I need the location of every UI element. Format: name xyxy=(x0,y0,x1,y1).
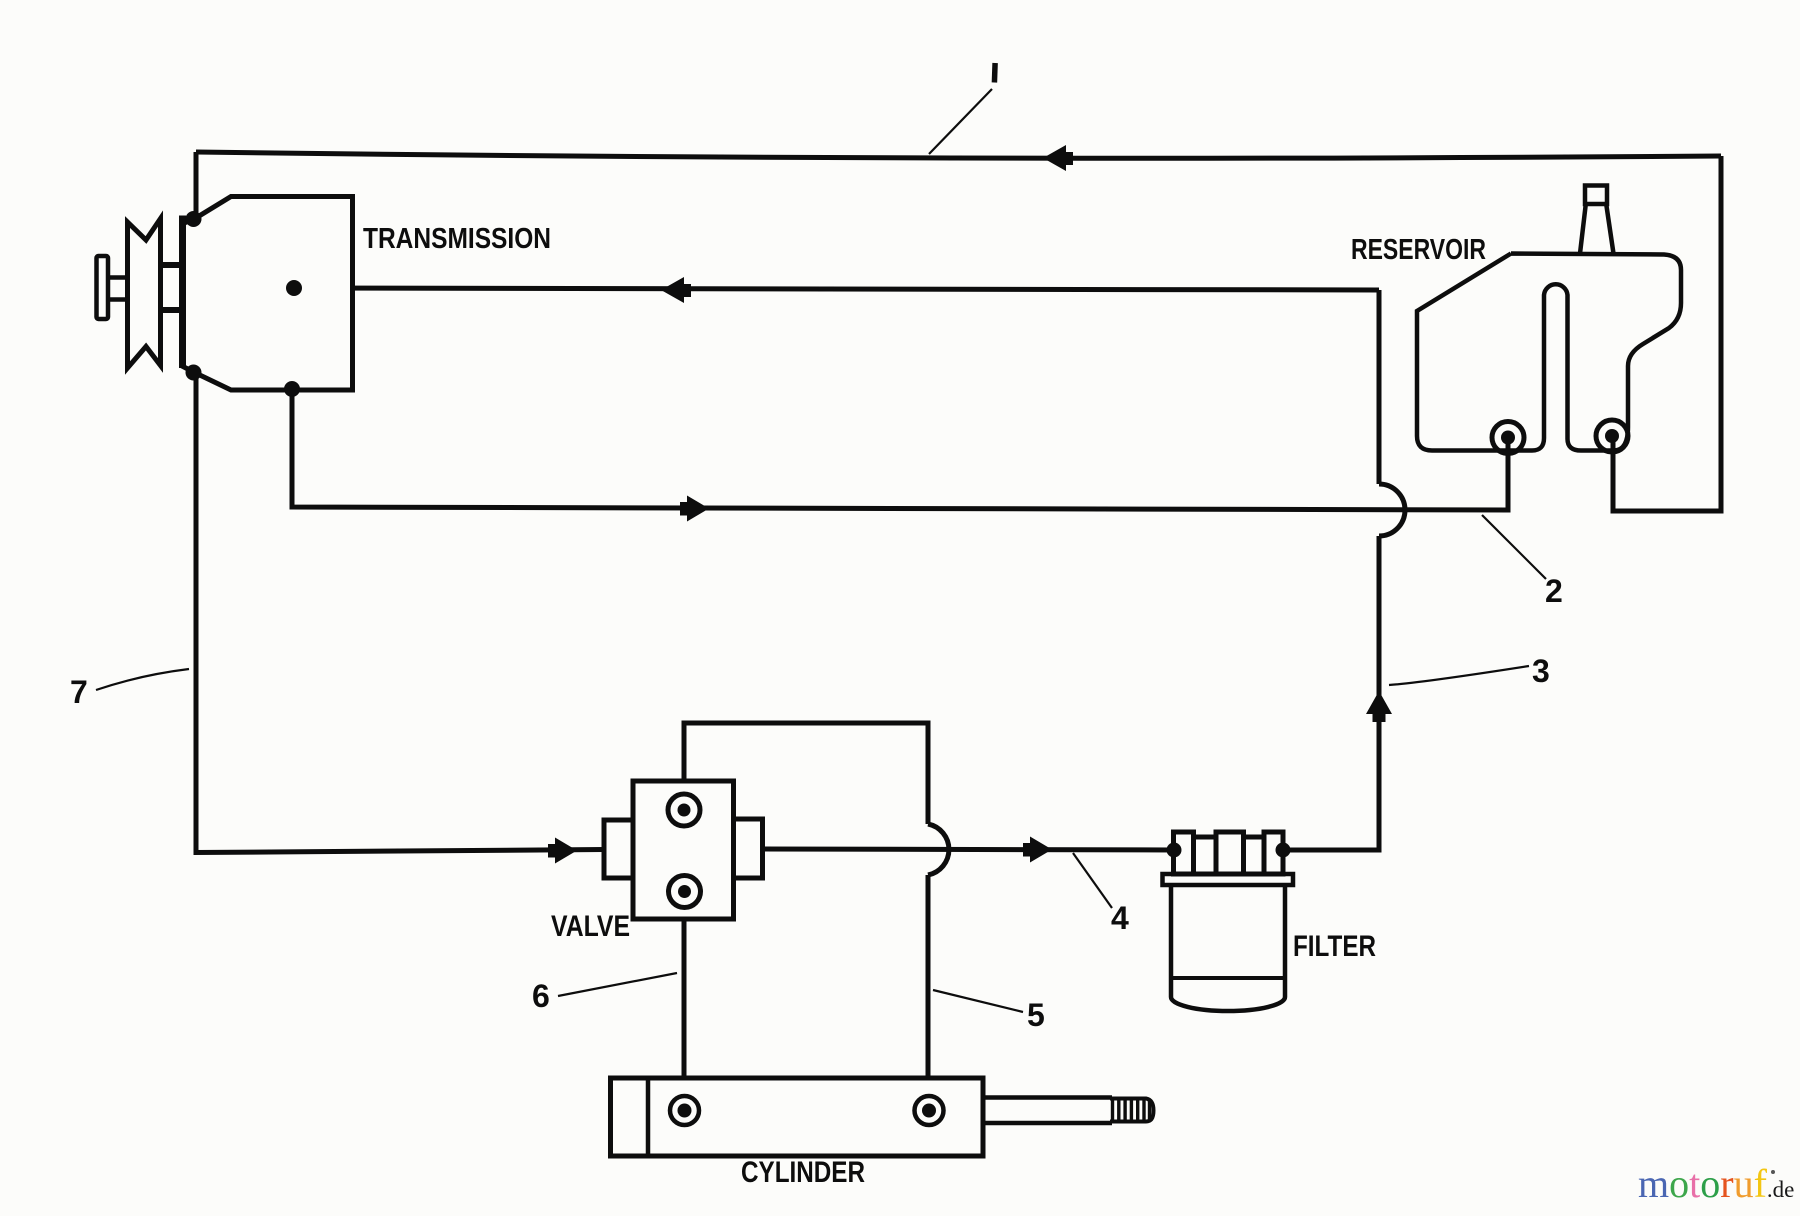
node filter inlet dot xyxy=(1167,843,1182,858)
pulley hub crossbar lower xyxy=(162,307,180,313)
svg-text:RESERVOIR: RESERVOIR xyxy=(1351,234,1486,266)
svg-text:2: 2 xyxy=(1545,573,1563,609)
node transmission upper-left port dot xyxy=(186,211,202,227)
valve body xyxy=(633,781,734,919)
svg-text:4: 4 xyxy=(1111,900,1129,936)
wire outer loop right side down to reservoir right port xyxy=(1613,156,1721,511)
svg-text:7: 7 xyxy=(70,674,88,710)
reservoir left port xyxy=(1492,422,1524,454)
valve bottom port xyxy=(669,876,701,908)
filter ring line xyxy=(1171,976,1285,980)
svg-text:5: 5 xyxy=(1027,997,1045,1033)
wire bridge hop over line 2 xyxy=(1379,484,1405,536)
filter head cell 5 xyxy=(1264,832,1283,874)
filter head cell 4 xyxy=(1244,837,1265,874)
wire transmission bottom port to reservoir left port (line 2) xyxy=(292,389,1508,510)
svg-text:TRANSMISSION: TRANSMISSION xyxy=(363,223,551,255)
pulley hub crossbar upper xyxy=(162,262,180,268)
transmission body xyxy=(182,197,353,391)
cylinder right port xyxy=(915,1096,944,1125)
reservoir filler cap xyxy=(1585,186,1607,205)
wire valve top port overhead loop to cylinder right port xyxy=(684,723,928,824)
pulley shaft end plate xyxy=(97,256,109,319)
wire vertical riser upper segment xyxy=(1377,290,1382,484)
arrow on filter inlet line pointing right xyxy=(1023,837,1052,863)
valve left tab xyxy=(604,820,633,878)
wire top return rail (line 1) xyxy=(196,152,1721,158)
wire left vertical from rail to transmission upper port xyxy=(194,152,199,219)
wire overhead loop lower segment into cylinder right port xyxy=(926,875,931,1110)
filter head cell 3 xyxy=(1216,832,1244,874)
filter body with rounded bottom xyxy=(1171,885,1285,1011)
leader line for 7 xyxy=(96,669,189,690)
node transmission lower-left port dot xyxy=(186,365,202,381)
valve top port xyxy=(668,794,700,826)
arrow on top rail pointing left xyxy=(1043,145,1073,171)
svg-text:CYLINDER: CYLINDER xyxy=(741,1156,865,1189)
leader line for 6 xyxy=(558,973,677,996)
label 1 xyxy=(992,63,998,83)
node transmission middle port dot xyxy=(286,280,302,296)
cylinder piston line xyxy=(646,1078,651,1156)
filter head cell 2 xyxy=(1194,837,1217,874)
wire vertical riser lower segment to filter outlet xyxy=(1284,536,1379,850)
watermark motoruf.de logo xyxy=(1638,1161,1794,1206)
wire valve bottom port to cylinder left port xyxy=(682,892,687,1110)
wire transmission middle line to vertical riser xyxy=(294,288,1379,290)
pulley sheave (hourglass disc) xyxy=(128,219,161,369)
pulley shaft lower line xyxy=(107,297,128,302)
leader line for 5 xyxy=(933,990,1023,1012)
cylinder left port xyxy=(670,1096,699,1125)
pulley shaft upper line xyxy=(107,275,128,280)
svg-text:FILTER: FILTER xyxy=(1293,930,1376,963)
node filter outlet dot xyxy=(1276,843,1291,858)
svg-text:3: 3 xyxy=(1532,653,1550,689)
filter flange xyxy=(1163,874,1294,885)
valve right tab xyxy=(734,819,763,878)
reservoir tank outline xyxy=(1417,254,1681,451)
svg-text:VALVE: VALVE xyxy=(551,910,630,943)
reservoir right port xyxy=(1596,420,1628,452)
cylinder rod threaded end xyxy=(1113,1099,1150,1122)
leader line for 3 xyxy=(1389,666,1529,685)
arrow on line 2 pointing right xyxy=(680,496,709,522)
svg-text:6: 6 xyxy=(532,978,550,1014)
leader line for 1 xyxy=(929,89,992,154)
transmission pulley hub face xyxy=(179,216,186,369)
reservoir filler neck xyxy=(1580,204,1614,254)
arrow on valve feed line pointing right xyxy=(548,838,577,864)
leader line for 4 xyxy=(1073,853,1112,908)
cylinder rod xyxy=(983,1098,1112,1124)
wire valve outlet to filter inlet xyxy=(762,849,1174,850)
leader line for 2 xyxy=(1482,515,1546,579)
filter head cell 1 xyxy=(1174,832,1194,874)
wire left vertical from transmission lower-left port down to valve feed xyxy=(196,373,604,853)
arrow on transmission middle line pointing left xyxy=(661,277,691,303)
wire bridge hop over valve outlet line xyxy=(928,824,949,875)
arrow on riser pointing up xyxy=(1366,691,1392,722)
cylinder body xyxy=(611,1078,984,1156)
node transmission bottom port dot xyxy=(284,381,300,397)
